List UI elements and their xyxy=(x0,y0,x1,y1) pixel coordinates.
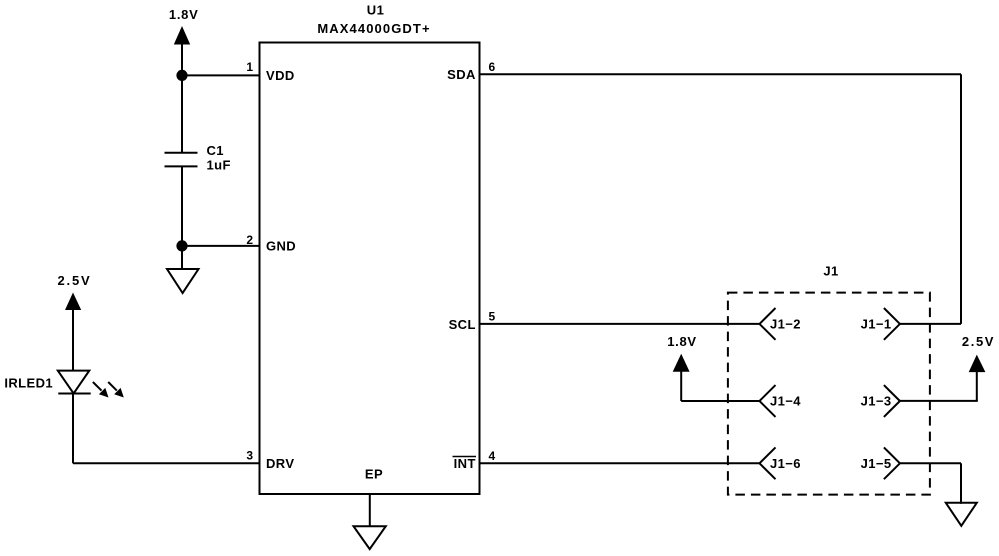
ground (below EP) xyxy=(354,526,386,549)
svg-text:EP: EP xyxy=(365,467,383,482)
power 1.8V arrow symbol (top-left) xyxy=(174,26,190,45)
wire 2.5V arrow down xyxy=(976,371,978,401)
svg-text:SCL: SCL xyxy=(449,317,476,332)
svg-text:J1−6: J1−6 xyxy=(770,456,801,471)
svg-text:2.5V: 2.5V xyxy=(58,273,92,288)
connector pin J1-3 xyxy=(861,385,900,417)
ground (bottom right) xyxy=(946,503,977,526)
svg-text:1.8V: 1.8V xyxy=(169,7,199,22)
ground (below C1) xyxy=(167,269,199,293)
connector pin J1-2 xyxy=(760,308,801,340)
wire INT pin4 horizontal xyxy=(480,462,760,464)
connector J1 outline (dashed) xyxy=(728,293,930,495)
wire 2.5V to LED anode xyxy=(72,309,74,371)
wire 1.8V rail vertical (arrow to capacitor) xyxy=(181,44,183,154)
svg-text:IRLED1: IRLED1 xyxy=(4,376,53,391)
node junction at VDD/C1 xyxy=(176,70,187,81)
power 2.5V arrow symbol (left) xyxy=(65,293,81,311)
wire J1-1 to SDA rail xyxy=(900,323,961,325)
wire LED cathode down xyxy=(72,394,74,464)
value label C1 1uF xyxy=(207,143,231,173)
LED IRLED1 xyxy=(58,371,124,398)
svg-text:J1−1: J1−1 xyxy=(861,317,892,332)
svg-text:SDA: SDA xyxy=(447,67,476,82)
svg-text:GND: GND xyxy=(266,239,296,254)
wire SDA pin6 horizontal xyxy=(480,73,962,75)
svg-text:1: 1 xyxy=(246,60,253,74)
svg-text:VDD: VDD xyxy=(266,68,295,83)
svg-text:6: 6 xyxy=(489,60,496,74)
connector pin J1-5 xyxy=(861,447,900,479)
power 1.8V arrow symbol (near J1) xyxy=(673,354,690,372)
pin label INT (active low) xyxy=(453,456,477,471)
svg-text:J1−3: J1−3 xyxy=(861,394,892,409)
svg-text:J1−4: J1−4 xyxy=(770,394,801,409)
wire VDD pin1 horizontal xyxy=(182,74,261,76)
wire DRV pin3 horizontal xyxy=(73,462,261,464)
svg-text:1uF: 1uF xyxy=(207,158,231,173)
wire J1-3 to 2.5V xyxy=(900,400,978,402)
svg-text:DRV: DRV xyxy=(266,456,294,471)
capacitor C1 xyxy=(165,153,198,167)
op-amp U1 body MAX44000GDT+ xyxy=(260,43,480,495)
svg-text:5: 5 xyxy=(489,310,496,324)
svg-text:J1−2: J1−2 xyxy=(770,317,801,332)
svg-text:U1: U1 xyxy=(367,2,384,17)
wire GND pin2 horizontal xyxy=(182,245,261,247)
power 2.5V arrow symbol (right) xyxy=(969,355,986,373)
wire SCL pin5 horizontal xyxy=(480,323,760,325)
connector pin J1-4 xyxy=(760,385,802,417)
wire 1.8V to J1-4 xyxy=(681,400,759,402)
connector pin J1-1 xyxy=(861,308,900,340)
svg-text:2.5V: 2.5V xyxy=(962,334,995,349)
svg-text:2: 2 xyxy=(246,233,253,247)
svg-text:C1: C1 xyxy=(207,143,224,158)
connector pin J1-6 xyxy=(760,447,801,479)
wire J1-5 to ground xyxy=(900,462,961,464)
svg-text:J1−5: J1−5 xyxy=(861,456,892,471)
wire EP stub xyxy=(369,494,371,527)
wire 1.8V arrow down xyxy=(680,371,682,401)
svg-text:INT: INT xyxy=(454,456,476,471)
node junction at GND/C1 xyxy=(176,240,187,251)
svg-text:3: 3 xyxy=(246,449,253,463)
svg-text:J1: J1 xyxy=(823,264,838,279)
wire SDA vertical down to J1-1 xyxy=(960,74,962,324)
svg-text:MAX44000GDT+: MAX44000GDT+ xyxy=(317,21,430,36)
wire ground drop (bottom right) xyxy=(960,463,962,504)
svg-text:4: 4 xyxy=(489,449,496,463)
wire capacitor to GND node xyxy=(181,166,183,271)
svg-text:1.8V: 1.8V xyxy=(667,334,697,349)
